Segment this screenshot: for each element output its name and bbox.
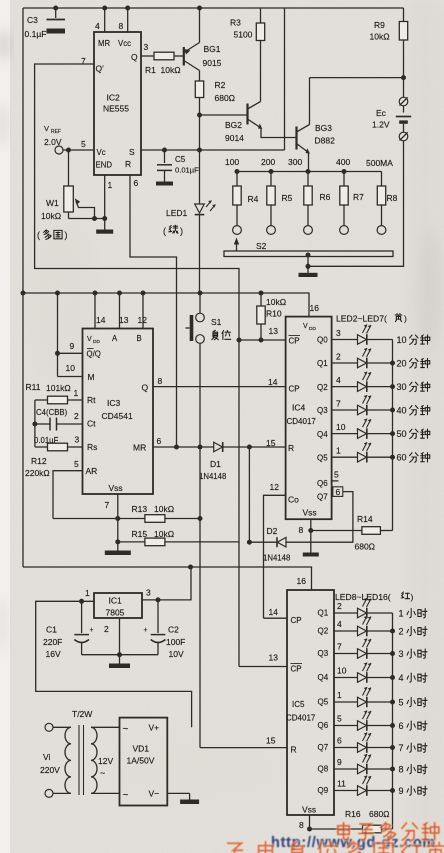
wire: VD1 V- out	[167, 792, 189, 794]
svg-text:R2: R2	[215, 80, 226, 90]
label pin2	[104, 624, 109, 634]
svg-text:DD: DD	[309, 326, 316, 332]
wire: IC3 top pin stubs	[95, 293, 143, 329]
svg-text:8: 8	[158, 376, 163, 386]
svg-text:5: 5	[399, 698, 404, 708]
svg-text:Q3: Q3	[318, 649, 329, 658]
svg-text:Q2: Q2	[318, 627, 329, 636]
svg-text:12: 12	[270, 482, 280, 492]
svg-text:3: 3	[75, 435, 80, 445]
svg-text:101kΩ: 101kΩ	[46, 383, 71, 393]
svg-text:5: 5	[81, 139, 86, 149]
svg-text:CP: CP	[289, 385, 300, 394]
svg-text:Vss: Vss	[303, 508, 317, 518]
label IC2 pins top	[95, 21, 131, 48]
svg-text:8: 8	[399, 765, 404, 775]
wire: Q' pin7 to counters enable	[35, 64, 239, 667]
node: S line dots	[162, 148, 202, 153]
svg-text:LED1: LED1	[166, 208, 188, 218]
label LED8-LED16 header	[335, 592, 414, 602]
label Q line pins	[158, 376, 278, 387]
node: S2 ground node	[306, 264, 311, 269]
svg-text:680Ω: 680Ω	[215, 93, 236, 103]
wire: IC5 R line	[200, 747, 287, 749]
label IC3 name	[102, 398, 133, 421]
svg-text:400: 400	[336, 157, 350, 167]
svg-text:R4: R4	[248, 194, 259, 204]
svg-text:8: 8	[119, 21, 124, 31]
svg-text:5: 5	[334, 470, 339, 480]
capacitor C2	[144, 600, 166, 655]
resistors R4 R5 R6 R7 R8	[233, 172, 386, 235]
svg-text:R13: R13	[132, 504, 148, 514]
svg-text:Vi: Vi	[43, 752, 51, 762]
svg-text:): )	[404, 314, 407, 324]
wire: D2 to reset line	[248, 447, 250, 542]
svg-text:9: 9	[399, 786, 404, 796]
svg-text:NE555: NE555	[103, 104, 129, 114]
svg-text:MR: MR	[98, 39, 110, 48]
svg-text:Q: Q	[142, 383, 149, 393]
wire: +V top rail	[23, 7, 404, 9]
node: gnd dot	[117, 652, 122, 657]
svg-text:680Ω: 680Ω	[355, 542, 376, 552]
svg-text:R: R	[125, 159, 131, 169]
svg-text:7: 7	[399, 743, 404, 753]
transformer core	[79, 725, 84, 795]
svg-text:REF: REF	[51, 129, 61, 135]
svg-text:R: R	[288, 443, 294, 453]
svg-text:1: 1	[399, 609, 404, 619]
svg-text:12V: 12V	[98, 756, 113, 766]
svg-text:20: 20	[397, 359, 407, 369]
switch S2 bar	[224, 251, 393, 257]
svg-text:Q0: Q0	[317, 336, 328, 345]
wire: pin9/10 tie	[55, 293, 83, 377]
label R3	[230, 18, 253, 40]
op-amp U4: IC4 CD4017 box	[286, 317, 332, 520]
svg-text:END: END	[96, 161, 113, 170]
svg-text:0.01µF: 0.01µF	[175, 166, 199, 175]
svg-text:T/2W: T/2W	[72, 709, 92, 719]
diode D1 1N4148	[214, 442, 223, 452]
wire: LED yellow cathode bus	[392, 340, 394, 531]
svg-text:100: 100	[225, 157, 239, 167]
svg-text:DD: DD	[93, 339, 100, 345]
svg-text:2.0V: 2.0V	[44, 137, 62, 147]
label D2	[263, 526, 290, 563]
svg-text:8: 8	[299, 525, 304, 535]
label BG2	[225, 120, 244, 143]
svg-text:Q7: Q7	[317, 493, 328, 502]
svg-text:5: 5	[74, 459, 79, 469]
svg-text:Q6: Q6	[317, 479, 328, 488]
switch S1 reset button	[186, 293, 205, 748]
label VD1	[123, 723, 160, 802]
svg-text:D1: D1	[210, 459, 221, 469]
label IC5 CPbar	[269, 653, 303, 674]
svg-text:10: 10	[66, 363, 76, 373]
svg-text:D2: D2	[267, 526, 278, 536]
svg-text:220F: 220F	[43, 637, 62, 647]
svg-text:+: +	[144, 627, 148, 634]
potentiometer W1	[64, 150, 107, 221]
svg-text:1N4148: 1N4148	[199, 472, 226, 481]
transformer T primary	[45, 723, 71, 797]
svg-text:CD4541: CD4541	[102, 411, 133, 421]
svg-text:CD4017: CD4017	[287, 417, 317, 426]
svg-text:1: 1	[336, 446, 341, 456]
svg-text:10kΩ: 10kΩ	[41, 211, 61, 221]
label IC3 inner	[86, 334, 149, 493]
svg-text:7: 7	[336, 399, 341, 409]
svg-text:C1: C1	[46, 625, 57, 635]
svg-text:): )	[180, 226, 183, 236]
svg-text:7: 7	[105, 500, 110, 510]
svg-text:Q1: Q1	[317, 359, 328, 368]
svg-text:15: 15	[266, 736, 276, 746]
node: R13 right	[198, 516, 203, 521]
svg-text:): )	[411, 592, 414, 602]
svg-text:6: 6	[336, 487, 341, 497]
svg-text:10: 10	[397, 335, 407, 345]
wire: pin1 input rail	[36, 601, 192, 727]
label 16	[310, 303, 320, 313]
wire: IC2 pin8 stub	[127, 8, 129, 32]
resistor R16	[310, 825, 393, 833]
svg-text:8: 8	[299, 820, 304, 830]
watermark url	[271, 835, 436, 851]
svg-text:Ec: Ec	[376, 108, 387, 118]
label R1	[145, 65, 181, 75]
label S1	[211, 317, 231, 340]
svg-text:Q7: Q7	[318, 743, 329, 752]
svg-text:Q8: Q8	[318, 765, 329, 774]
node: vss dot	[308, 528, 313, 533]
svg-text:R8: R8	[387, 193, 398, 203]
svg-text:VD1: VD1	[133, 744, 150, 754]
wire: MR / reset line	[153, 446, 286, 448]
svg-text:IC2: IC2	[107, 93, 121, 103]
svg-text:~: ~	[100, 768, 105, 778]
label IC5 name	[286, 700, 316, 723]
wire: R4-R8 top bus	[237, 171, 382, 173]
wire: IC2 pin4 stub	[104, 8, 106, 32]
label 12V	[98, 756, 113, 778]
label Vss8	[299, 525, 304, 535]
label IC3 left pins	[66, 341, 80, 469]
svg-text:16V: 16V	[46, 649, 61, 659]
label pin3	[146, 588, 151, 598]
resistor R13	[53, 515, 200, 523]
node: D2 left dot	[247, 540, 252, 545]
ground: VD1	[180, 793, 199, 804]
svg-text:B: B	[137, 334, 142, 343]
diode D2 1N4148	[249, 537, 286, 547]
svg-text:IC4: IC4	[292, 403, 306, 413]
node: frame 5V tap	[188, 565, 193, 570]
wire: RC tie vertical	[32, 400, 37, 447]
svg-text:14: 14	[268, 377, 278, 387]
svg-text:V: V	[303, 323, 308, 330]
svg-text:V+: V+	[149, 723, 160, 733]
svg-text:BG3: BG3	[315, 123, 332, 133]
svg-text:Q4: Q4	[318, 673, 329, 682]
wire: IC4 CPbar line	[237, 338, 286, 343]
svg-text:Q1: Q1	[318, 609, 329, 618]
labels current scale	[225, 157, 393, 168]
wire: bottom frame bus	[23, 567, 312, 590]
ground: S2	[299, 266, 318, 277]
resistor R3	[256, 8, 264, 102]
wire: base of BG2	[200, 114, 248, 116]
svg-text:3: 3	[144, 42, 149, 52]
node: pin6 reset join	[174, 445, 179, 450]
svg-text:300: 300	[288, 157, 302, 167]
wire: ground link C1-C2	[82, 654, 158, 656]
node: pin1 dot	[79, 599, 84, 604]
ground: regulator	[109, 655, 130, 668]
svg-text:): )	[65, 230, 68, 240]
labels minutes	[397, 335, 430, 463]
svg-text:IC1: IC1	[109, 596, 123, 606]
label IC5 Vss	[302, 805, 316, 815]
capacitor C1	[74, 601, 93, 654]
node: VDD bus dots	[55, 291, 264, 296]
op-amp U2: IC1 7805 box	[94, 593, 142, 618]
svg-text:Q6: Q6	[318, 721, 329, 730]
svg-text:40: 40	[397, 406, 407, 416]
svg-text:Vcc: Vcc	[118, 39, 131, 48]
svg-text:Q9: Q9	[318, 786, 329, 795]
svg-text:BG1: BG1	[204, 44, 221, 54]
svg-text:BG2: BG2	[225, 120, 242, 130]
label C3	[25, 15, 47, 39]
ground: IC2 pin1/W1	[96, 219, 113, 234]
svg-text:IC5: IC5	[292, 700, 305, 709]
svg-text:1: 1	[337, 690, 342, 700]
label IC2 pins inner	[81, 42, 149, 190]
svg-text:Vss: Vss	[109, 483, 123, 493]
svg-text:Q3: Q3	[317, 406, 328, 415]
label R11	[26, 382, 71, 393]
label R16	[345, 809, 390, 819]
svg-text:C4(CBB): C4(CBB)	[36, 408, 68, 417]
svg-text:AR: AR	[86, 466, 98, 476]
wire: IC5 CPbar stub	[239, 666, 287, 668]
transistor BG3 emitter	[297, 144, 311, 172]
svg-text:100F: 100F	[166, 637, 185, 647]
svg-text:R7: R7	[353, 192, 364, 202]
wire: IC3 Q to IC4 CP	[153, 386, 286, 388]
svg-text:C2: C2	[168, 625, 179, 635]
svg-text:R1: R1	[145, 65, 156, 75]
wire: AR pin5	[53, 471, 83, 519]
wire: left frame border	[22, 8, 24, 567]
svg-text:1: 1	[108, 180, 113, 190]
node: MR line dots	[198, 445, 252, 450]
svg-text:1N4148: 1N4148	[263, 554, 290, 563]
svg-text:R12: R12	[31, 456, 47, 466]
svg-text:S: S	[129, 147, 135, 157]
svg-text:7805: 7805	[106, 608, 125, 618]
svg-text:Co: Co	[288, 495, 299, 505]
label W1	[37, 198, 68, 240]
svg-text:6: 6	[134, 178, 139, 188]
label LED1	[163, 208, 188, 236]
wire: IC5 CP stub	[264, 617, 288, 619]
wire: R1 to BG1 base	[174, 55, 184, 57]
svg-text:60: 60	[397, 453, 407, 463]
svg-text:(: (	[163, 226, 166, 236]
battery Ec 1.2V	[308, 78, 411, 267]
svg-text:Rt: Rt	[87, 395, 96, 405]
svg-text:R15: R15	[132, 529, 148, 539]
svg-text:500MA: 500MA	[366, 158, 393, 168]
svg-text:R11: R11	[26, 382, 41, 392]
svg-text:6: 6	[399, 721, 404, 731]
wire: pin2 stem	[119, 618, 121, 655]
switch S2 wiper arrow	[234, 238, 239, 252]
transistor Q3: BG3 D882	[297, 78, 310, 150]
label transformer T	[72, 709, 92, 719]
label C2	[166, 625, 185, 660]
svg-text:11: 11	[337, 779, 346, 789]
svg-text:R10: R10	[266, 309, 282, 319]
svg-text:C5: C5	[175, 155, 186, 164]
svg-text:50: 50	[397, 429, 407, 439]
svg-text:10kΩ: 10kΩ	[370, 32, 390, 42]
svg-text:4: 4	[399, 673, 404, 683]
resistor R14	[311, 527, 393, 535]
svg-text:2: 2	[104, 624, 109, 634]
svg-text:2: 2	[399, 627, 404, 637]
svg-text:16: 16	[297, 576, 307, 586]
label C5	[175, 155, 199, 175]
svg-text:R3: R3	[230, 18, 241, 28]
svg-text:V: V	[87, 336, 92, 343]
ground: C5	[156, 179, 173, 186]
label IC3 top pins	[96, 315, 147, 325]
wire: Co line	[264, 495, 286, 618]
node: bus dots	[235, 169, 347, 174]
svg-text:M: M	[88, 372, 95, 382]
ground: IC4 Vss	[303, 551, 319, 557]
label VREF	[44, 124, 62, 147]
label IC4 vdd	[303, 323, 316, 332]
svg-text:13: 13	[269, 653, 279, 663]
svg-text:9: 9	[337, 757, 342, 767]
svg-text:(: (	[37, 230, 40, 240]
svg-text:R: R	[291, 745, 297, 755]
label IC5 pin16	[297, 576, 307, 586]
svg-text:Q2: Q2	[317, 383, 328, 392]
wire: VDD bus	[23, 293, 309, 317]
label R12	[25, 456, 50, 478]
terminal VREF	[55, 146, 94, 154]
svg-text:CP: CP	[289, 337, 300, 346]
label IC4 name	[287, 403, 317, 427]
svg-text:4: 4	[337, 619, 342, 629]
wire: IC2 Q pin3	[141, 55, 154, 57]
resistor R2	[195, 81, 203, 98]
svg-text:CP: CP	[291, 665, 302, 674]
op-amp U1: IC2 NE555 box	[94, 32, 141, 175]
label IC1	[106, 596, 125, 618]
node: R10 bottom	[259, 338, 264, 343]
svg-text:R14: R14	[357, 514, 373, 524]
svg-text:Q/Q: Q/Q	[87, 350, 101, 359]
diode bridge VD1	[120, 718, 168, 806]
svg-text:13: 13	[119, 315, 129, 325]
svg-text:7: 7	[337, 642, 342, 652]
svg-text:0.1µF: 0.1µF	[25, 29, 47, 39]
capacitor C4	[35, 418, 83, 431]
wire: IC2 S output line	[141, 8, 285, 150]
node: R2/BG2 base	[197, 113, 202, 118]
svg-text:5: 5	[337, 714, 342, 724]
svg-text:C3: C3	[27, 15, 38, 25]
svg-text:~: ~	[123, 790, 129, 801]
svg-text:10kΩ: 10kΩ	[161, 65, 181, 75]
svg-text:Q4: Q4	[317, 430, 328, 439]
label BG3	[315, 123, 336, 146]
svg-text:R6: R6	[320, 192, 331, 202]
svg-text:1A/50V: 1A/50V	[127, 756, 155, 766]
svg-text:3: 3	[399, 649, 404, 659]
capacitor C5	[157, 150, 172, 179]
svg-text:10kΩ: 10kΩ	[266, 297, 286, 307]
svg-text:4: 4	[336, 375, 341, 385]
op-amp U5: IC5 CD4017 box	[287, 590, 334, 815]
label IC2	[103, 93, 129, 114]
svg-text:220kΩ: 220kΩ	[25, 468, 50, 478]
svg-text:220V: 220V	[40, 765, 60, 775]
transformer T secondary	[91, 727, 120, 793]
label R9	[370, 20, 390, 42]
label 12	[270, 482, 280, 492]
svg-text:W1: W1	[46, 198, 59, 208]
label Vi 220V	[40, 752, 60, 775]
svg-text:S2: S2	[256, 241, 267, 251]
node: pin8 dot	[307, 827, 312, 832]
svg-text:V: V	[44, 124, 49, 133]
svg-text:Q': Q'	[96, 64, 105, 74]
svg-text:9015: 9015	[203, 58, 222, 68]
label S2	[256, 241, 267, 251]
label R13	[132, 504, 175, 514]
svg-text:10V: 10V	[169, 649, 184, 659]
resistor R9	[399, 8, 407, 78]
label C1	[43, 625, 62, 660]
svg-text:Q5: Q5	[318, 698, 329, 707]
svg-text:~: ~	[123, 724, 129, 735]
LEDs LED2-LED7 rows	[317, 325, 395, 463]
label pin8	[299, 820, 304, 830]
svg-text:D882: D882	[315, 136, 336, 146]
svg-text:Rs: Rs	[87, 442, 97, 452]
svg-text:12: 12	[138, 315, 148, 325]
node: frame-bus dot	[21, 291, 26, 296]
label MR line pins	[157, 436, 276, 448]
svg-text:2: 2	[336, 352, 341, 362]
resistor R11	[35, 396, 83, 404]
svg-text:10: 10	[337, 666, 347, 676]
label R15	[132, 529, 175, 539]
svg-text:2: 2	[74, 411, 79, 421]
svg-text:2: 2	[337, 601, 342, 611]
svg-text:200: 200	[261, 157, 275, 167]
